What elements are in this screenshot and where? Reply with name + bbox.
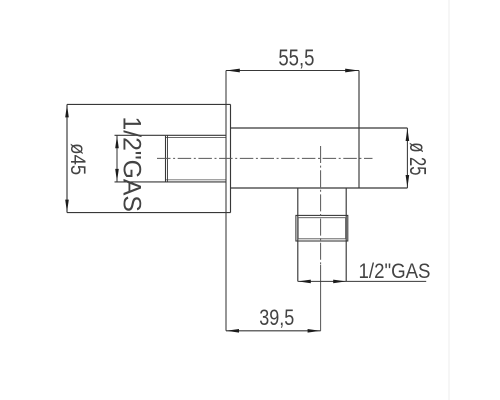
cylinder bottom edge + ø25 extension [231, 187, 408, 189]
thread crest bottom (with dim extension) [115, 181, 227, 183]
svg-text:55,5: 55,5 [278, 46, 314, 72]
wire: square wall plate outline [67, 104, 231, 212]
leader / dim line 1/2"GAS bottom [298, 280, 426, 282]
svg-text:1/2"GAS: 1/2"GAS [359, 260, 431, 283]
cylinder right end + 55,5 extension [358, 71, 360, 189]
plate right edge [230, 104, 232, 212]
svg-text:ø 25: ø 25 [404, 142, 429, 175]
tube left edge [297, 188, 299, 281]
svg-text:39,5: 39,5 [259, 306, 294, 330]
horizontal centerline [157, 157, 373, 159]
svg-text:1/2"GAS: 1/2"GAS [117, 116, 145, 211]
dimension ø45 arrows [65, 105, 69, 213]
thread box inner [298, 218, 345, 239]
cylinder top edge + ø25 extension [231, 127, 408, 129]
thread root bottom thin [166, 179, 226, 181]
nipple end face [165, 136, 167, 182]
scan artifact faint line [448, 0, 450, 400]
vertical centerline of tube [320, 146, 322, 265]
drop tube [298, 188, 346, 281]
svg-text:ø45: ø45 [65, 143, 88, 175]
plate left edge / dim line ø45 [66, 104, 68, 212]
dimension 55,5 [226, 70, 359, 72]
nipple 1/2 GAS male thread (left, into wall) [115, 135, 227, 182]
thread box outer [296, 215, 348, 241]
cylinder body ø25 [231, 71, 408, 189]
dimension 1/2"GAS (left) line [116, 135, 118, 182]
plate bottom edge [67, 212, 231, 214]
nipple end inner line [167, 135, 169, 182]
dimension ø25 line [406, 128, 408, 188]
extension line A (left of 55,5 down to 39,5) [225, 71, 227, 331]
thread crest top (with dim extension) [115, 134, 227, 136]
thread root top thin [166, 137, 226, 139]
tube right edge [345, 188, 347, 281]
dimension 39,5 [226, 330, 321, 332]
plate top edge [67, 103, 231, 105]
